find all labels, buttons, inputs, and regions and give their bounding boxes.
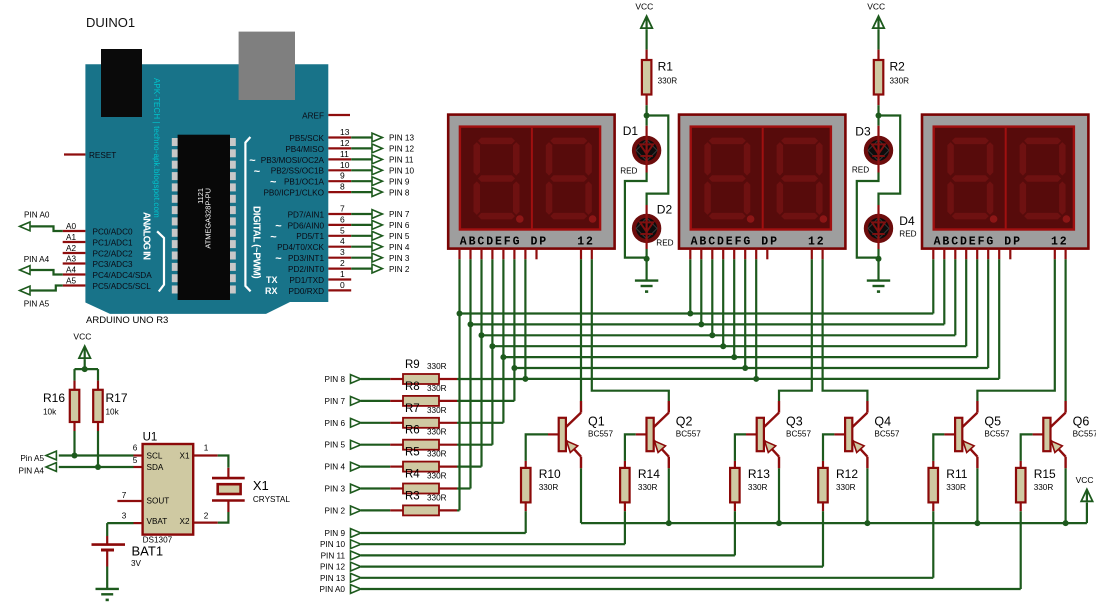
svg-text:1: 1 — [204, 444, 209, 453]
svg-text:X1: X1 — [179, 451, 189, 460]
svg-text:PIN A0: PIN A0 — [24, 211, 50, 220]
svg-text:Q6: Q6 — [1073, 415, 1090, 429]
svg-text:RESET: RESET — [89, 151, 116, 160]
svg-text:Q3: Q3 — [786, 415, 803, 429]
svg-text:R12: R12 — [836, 467, 858, 481]
svg-text:PIN 2: PIN 2 — [325, 506, 346, 515]
svg-text:PIN 12: PIN 12 — [320, 563, 345, 572]
svg-text:D4: D4 — [899, 214, 915, 228]
svg-text:A2: A2 — [66, 244, 76, 253]
svg-text:330R: 330R — [638, 483, 658, 492]
svg-text:R2: R2 — [890, 60, 906, 74]
svg-text:PB3/MOSI/OC2A: PB3/MOSI/OC2A — [261, 156, 325, 165]
svg-text:PIN 8: PIN 8 — [389, 188, 410, 197]
svg-text:PD7/AIN1: PD7/AIN1 — [288, 210, 325, 219]
svg-text:PIN A0: PIN A0 — [320, 585, 346, 594]
svg-text:PIN 3: PIN 3 — [389, 254, 410, 263]
svg-text:PIN 3: PIN 3 — [325, 485, 346, 494]
svg-text:DP: DP — [1004, 235, 1022, 248]
svg-text:BC557: BC557 — [786, 429, 811, 438]
svg-text:PC4/ADC4/SDA: PC4/ADC4/SDA — [93, 271, 153, 280]
svg-text:SOUT: SOUT — [147, 496, 170, 505]
svg-text:PIN 9: PIN 9 — [389, 177, 410, 186]
svg-text:BC557: BC557 — [874, 429, 899, 438]
svg-text:A1: A1 — [66, 233, 76, 242]
svg-text:X1: X1 — [253, 478, 269, 493]
svg-text:D1: D1 — [623, 124, 639, 138]
svg-text:10k: 10k — [43, 408, 57, 417]
svg-text:2: 2 — [204, 512, 209, 521]
svg-text:PIN 4: PIN 4 — [325, 463, 346, 472]
svg-text:5: 5 — [340, 225, 345, 235]
svg-text:13: 13 — [340, 127, 350, 137]
svg-text:7: 7 — [122, 491, 127, 500]
svg-text:PD4/T0/XCK: PD4/T0/XCK — [277, 243, 324, 252]
svg-text:Pin A5: Pin A5 — [20, 454, 44, 463]
svg-text:VCC: VCC — [1076, 475, 1094, 485]
svg-text:ABCDEFG: ABCDEFG — [934, 235, 996, 248]
svg-text:~: ~ — [275, 253, 282, 265]
svg-text:ATMEGA328P-PU: ATMEGA328P-PU — [204, 188, 213, 249]
svg-text:R17: R17 — [106, 391, 128, 405]
svg-text:11: 11 — [340, 149, 349, 159]
svg-text:R8: R8 — [405, 381, 420, 393]
svg-text:R1: R1 — [658, 60, 674, 74]
svg-text:PIN 6: PIN 6 — [325, 419, 346, 428]
svg-text:5: 5 — [133, 456, 138, 465]
svg-text:330R: 330R — [658, 77, 678, 86]
svg-text:U1: U1 — [143, 431, 158, 443]
svg-text:2: 2 — [340, 258, 345, 268]
svg-text:BC557: BC557 — [1073, 429, 1096, 438]
svg-text:330R: 330R — [748, 483, 768, 492]
svg-text:10k: 10k — [106, 408, 120, 417]
svg-text:R13: R13 — [748, 467, 770, 481]
svg-text:RX: RX — [265, 286, 278, 296]
svg-text:A3: A3 — [66, 254, 76, 263]
svg-text:4: 4 — [340, 236, 345, 246]
svg-text:Q5: Q5 — [984, 415, 1001, 429]
svg-text:330R: 330R — [1034, 483, 1054, 492]
svg-text:AREF: AREF — [302, 112, 324, 121]
svg-text:PIN 13: PIN 13 — [320, 574, 345, 583]
svg-text:0: 0 — [340, 280, 345, 290]
svg-text:TX: TX — [266, 275, 278, 285]
svg-text:8: 8 — [340, 182, 345, 192]
svg-text:R5: R5 — [405, 447, 420, 459]
svg-text:VCC: VCC — [867, 2, 885, 12]
svg-text:DP: DP — [531, 235, 549, 248]
svg-text:PC0/ADC0: PC0/ADC0 — [93, 227, 133, 236]
svg-text:12: 12 — [808, 235, 826, 248]
svg-text:PIN 10: PIN 10 — [320, 540, 345, 549]
svg-text:RED: RED — [899, 230, 916, 239]
svg-text:PD3/INT1: PD3/INT1 — [288, 254, 324, 263]
svg-text:PD2/INT0: PD2/INT0 — [288, 265, 324, 274]
svg-text:R3: R3 — [405, 490, 420, 502]
svg-text:SCL: SCL — [147, 451, 163, 460]
svg-text:PC2/ADC2: PC2/ADC2 — [93, 249, 133, 258]
svg-text:PIN 5: PIN 5 — [389, 232, 410, 241]
svg-text:PIN A4: PIN A4 — [24, 255, 50, 264]
svg-text:RED: RED — [656, 239, 673, 248]
svg-text:ARDUINO UNO R3: ARDUINO UNO R3 — [86, 315, 168, 326]
svg-text:3: 3 — [122, 512, 127, 521]
svg-text:R10: R10 — [539, 467, 561, 481]
svg-text:PIN 11: PIN 11 — [389, 156, 414, 165]
svg-text:D3: D3 — [855, 125, 871, 139]
svg-text:12: 12 — [577, 235, 595, 248]
svg-text:R15: R15 — [1034, 467, 1056, 481]
svg-text:R7: R7 — [405, 403, 420, 415]
svg-text:PIN 13: PIN 13 — [389, 134, 414, 143]
svg-text:Q2: Q2 — [676, 415, 693, 429]
svg-text:A4: A4 — [66, 265, 76, 274]
svg-text:330R: 330R — [539, 483, 559, 492]
svg-text:RED: RED — [620, 167, 637, 176]
svg-text:DUINO1: DUINO1 — [86, 15, 135, 30]
svg-text:PB4/MISO: PB4/MISO — [285, 145, 324, 154]
svg-text:PIN 12: PIN 12 — [389, 145, 414, 154]
svg-text:330R: 330R — [890, 77, 910, 86]
svg-text:R9: R9 — [405, 359, 420, 371]
svg-text:~: ~ — [270, 177, 277, 189]
svg-text:SDA: SDA — [147, 463, 164, 472]
svg-text:PIN 8: PIN 8 — [325, 375, 346, 384]
svg-text:PIN 6: PIN 6 — [389, 221, 410, 230]
svg-text:PIN 7: PIN 7 — [389, 210, 410, 219]
svg-text:PD0/RXD: PD0/RXD — [289, 287, 325, 296]
svg-text:PB0/ICP1/CLKO: PB0/ICP1/CLKO — [263, 189, 324, 198]
svg-text:7: 7 — [340, 204, 345, 214]
svg-text:PIN 7: PIN 7 — [325, 397, 346, 406]
svg-text:6: 6 — [340, 214, 345, 224]
svg-text:PIN 5: PIN 5 — [325, 441, 346, 450]
svg-text:3: 3 — [340, 247, 345, 257]
svg-text:A5: A5 — [66, 276, 76, 285]
svg-text:~: ~ — [270, 231, 277, 243]
svg-text:3V: 3V — [131, 559, 142, 568]
svg-text:R16: R16 — [43, 391, 65, 405]
svg-text:PIN A4: PIN A4 — [19, 466, 45, 475]
svg-text:BAT1: BAT1 — [132, 544, 164, 559]
svg-text:BC557: BC557 — [676, 429, 701, 438]
svg-text:PIN 2: PIN 2 — [389, 265, 410, 274]
svg-text:R6: R6 — [405, 425, 420, 437]
svg-text:330R: 330R — [427, 493, 447, 502]
svg-text:A0: A0 — [66, 222, 76, 231]
svg-text:BC557: BC557 — [588, 429, 613, 438]
svg-text:BC557: BC557 — [984, 429, 1009, 438]
svg-text:APK-TECH | techno-apk.blogspot: APK-TECH | techno-apk.blogspot.com — [152, 78, 161, 218]
svg-text:1: 1 — [340, 269, 345, 279]
svg-text:~: ~ — [254, 166, 261, 178]
svg-text:330R: 330R — [427, 384, 447, 393]
svg-text:VBAT: VBAT — [147, 517, 168, 526]
svg-text:330R: 330R — [427, 472, 447, 481]
svg-text:VCC: VCC — [635, 2, 653, 12]
svg-text:X2: X2 — [179, 517, 189, 526]
svg-text:PIN A5: PIN A5 — [24, 299, 50, 308]
svg-text:RED: RED — [852, 165, 869, 174]
svg-text:D2: D2 — [657, 203, 673, 217]
svg-text:VCC: VCC — [73, 332, 91, 342]
svg-text:PIN 11: PIN 11 — [321, 551, 346, 560]
svg-text:PIN 9: PIN 9 — [325, 529, 346, 538]
svg-text:330R: 330R — [427, 428, 447, 437]
svg-text:9: 9 — [340, 171, 345, 181]
svg-text:PD6/AIN0: PD6/AIN0 — [288, 221, 325, 230]
svg-text:DIGITAL (~PWM): DIGITAL (~PWM) — [251, 206, 262, 278]
svg-text:330R: 330R — [427, 406, 447, 415]
svg-text:330R: 330R — [836, 483, 856, 492]
svg-text:12: 12 — [1051, 235, 1069, 248]
svg-text:12: 12 — [340, 138, 350, 148]
svg-text:10: 10 — [340, 160, 350, 170]
svg-text:PIN 10: PIN 10 — [389, 167, 414, 176]
svg-text:330R: 330R — [427, 450, 447, 459]
svg-text:PB2/SS/OC1B: PB2/SS/OC1B — [271, 167, 325, 176]
svg-text:330R: 330R — [427, 362, 447, 371]
svg-text:6: 6 — [133, 444, 138, 453]
svg-text:PC3/ADC3: PC3/ADC3 — [93, 260, 133, 269]
svg-text:PC5/ADC5/SCL: PC5/ADC5/SCL — [93, 282, 152, 291]
svg-text:PC1/ADC1: PC1/ADC1 — [93, 238, 133, 247]
svg-text:ANALOG IN: ANALOG IN — [141, 212, 152, 260]
svg-text:ABCDEFG: ABCDEFG — [691, 235, 753, 248]
svg-text:PIN 4: PIN 4 — [389, 243, 410, 252]
svg-text:PB5/SCK: PB5/SCK — [289, 134, 324, 143]
svg-text:R11: R11 — [946, 467, 967, 481]
svg-text:ABCDEFG: ABCDEFG — [460, 235, 522, 248]
svg-text:PD5/T1: PD5/T1 — [296, 232, 324, 241]
svg-text:Q1: Q1 — [588, 415, 605, 429]
svg-text:330R: 330R — [946, 483, 966, 492]
svg-text:R14: R14 — [638, 467, 660, 481]
svg-text:R4: R4 — [405, 469, 420, 481]
svg-text:DP: DP — [761, 235, 779, 248]
svg-text:PB1/OC1A: PB1/OC1A — [284, 178, 325, 187]
svg-text:PD1/TXD: PD1/TXD — [289, 276, 324, 285]
svg-text:Q4: Q4 — [874, 415, 891, 429]
svg-text:CRYSTAL: CRYSTAL — [253, 495, 290, 504]
